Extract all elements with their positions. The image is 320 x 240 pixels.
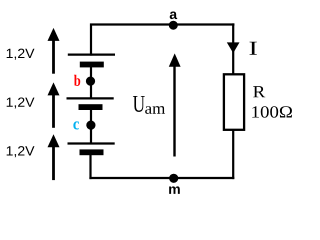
emf value label cell 3: [7, 146, 35, 157]
emf arrow cell 2: [48, 82, 60, 127]
node m junction dot: [169, 174, 178, 183]
wire top horizontal: [90, 23, 235, 25]
voltage Uam arrow shaft: [173, 64, 175, 157]
voltage Uam arrow head: [169, 53, 181, 66]
battery cell 2 positive plate: [67, 97, 114, 99]
battery cell 1 negative plate: [80, 62, 104, 68]
wire bottom horizontal: [89, 177, 234, 179]
wire right branch upper: [232, 23, 234, 74]
battery cell 3 positive plate: [68, 142, 115, 144]
emf arrow cell 3: [48, 134, 60, 180]
current arrow I head: [227, 42, 240, 53]
wire battery2 to battery3 through node c: [90, 107, 92, 144]
node a junction dot: [169, 21, 178, 30]
emf arrow cell 1: [48, 28, 60, 74]
wire right branch lower: [232, 129, 234, 179]
node b label: [74, 75, 80, 86]
battery cell 3 negative plate: [80, 149, 104, 155]
node c junction dot: [86, 121, 95, 130]
battery cell 2 negative plate: [79, 104, 103, 110]
node b junction dot: [86, 77, 95, 86]
resistor value label 100 ohm: [252, 106, 292, 117]
wire battery1 top to top-left corner: [90, 26, 92, 56]
current label I: [250, 42, 257, 55]
resistor R body: [224, 74, 244, 130]
wire battery3 bottom to bottom-left corner: [89, 152, 91, 179]
voltage label Uam: [133, 96, 165, 114]
wire battery1 to battery2 through node b: [90, 64, 92, 98]
node m label: [169, 186, 180, 194]
node a label: [170, 11, 177, 19]
emf value label cell 2: [7, 97, 35, 108]
node c label: [73, 121, 79, 129]
emf value label cell 1: [7, 49, 35, 60]
battery cell 1 positive plate: [68, 53, 115, 55]
resistor label R: [253, 86, 265, 97]
